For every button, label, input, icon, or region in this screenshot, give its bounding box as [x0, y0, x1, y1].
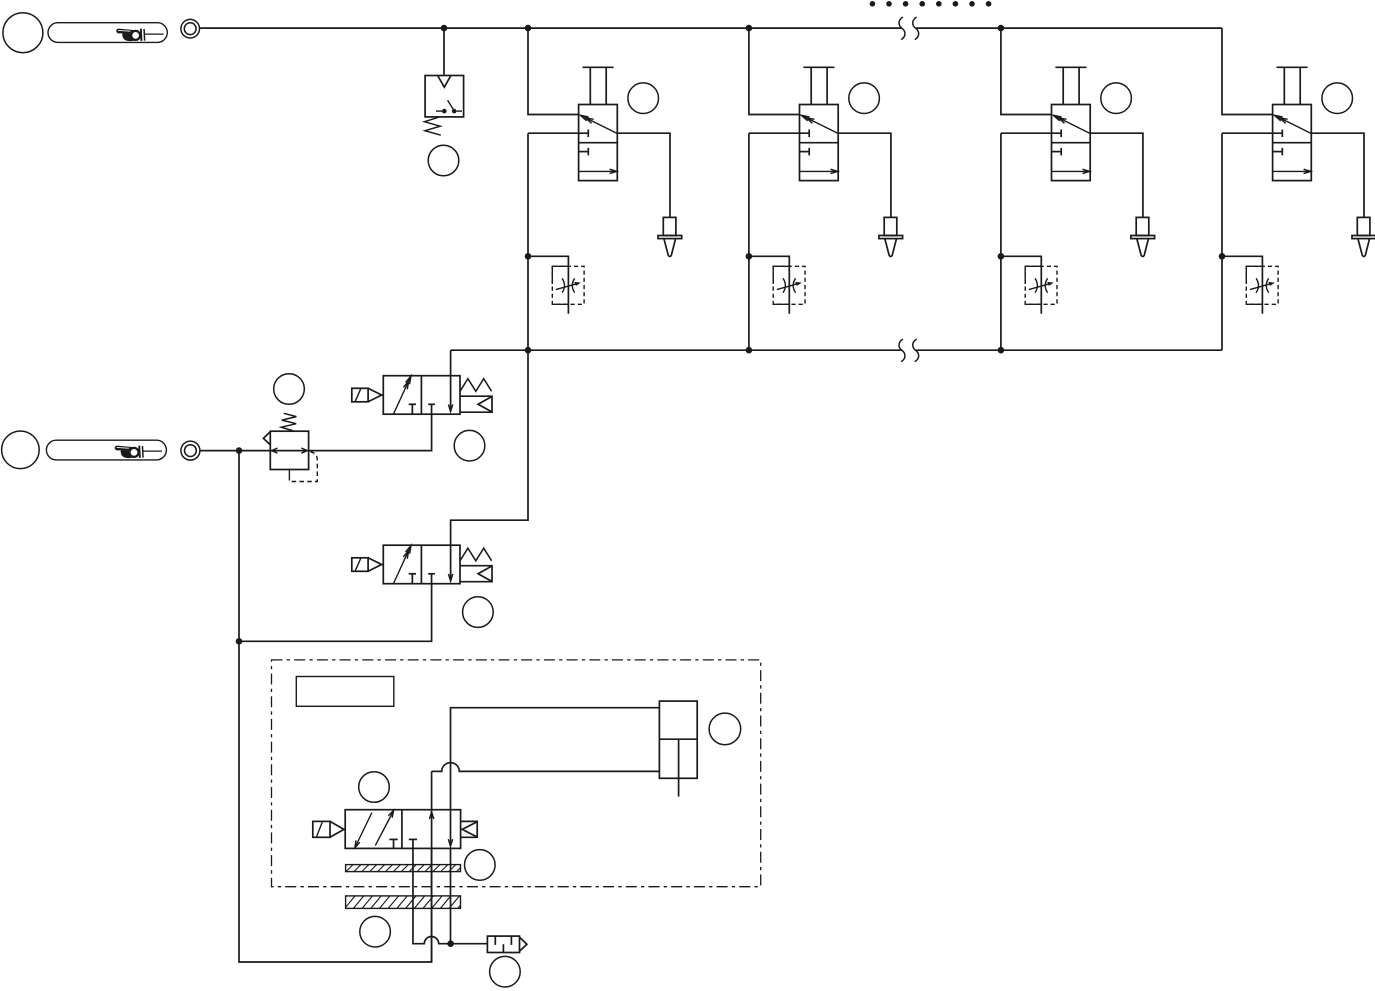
- balloon: valve V2: [463, 597, 494, 628]
- wire: lower vacuum bus (right part): [916, 349, 1222, 351]
- DV crossed flow arrows (left position): [356, 813, 372, 846]
- continuation dots (repeated units): [870, 1, 876, 7]
- DV straight flow arrows (right position): [429, 812, 433, 819]
- hand symbol 2: [115, 446, 144, 459]
- solenoid valve V1 (3-port, spring return): [352, 376, 492, 415]
- pressure switch PS (box with electrical contact): [425, 76, 464, 117]
- regulator R (pressure reducing valve): [270, 431, 308, 469]
- pressure switch spring: [425, 117, 441, 135]
- enclosure: actuator assembly (chain line box): [272, 660, 761, 887]
- balloon: silencer: [490, 956, 521, 987]
- wire: DV exhaust port (right) down: [450, 848, 452, 943]
- junction: supply 2 branch: [236, 447, 243, 454]
- break marks: top bus continuation: [899, 17, 905, 40]
- hand symbol 1: [116, 29, 145, 42]
- break marks: lower bus continuation: [899, 339, 905, 362]
- wire: DV exhaust port (left) down and across (hop over supply): [413, 848, 451, 943]
- DV air pilot (right end): [461, 821, 477, 837]
- junction: pressure-switch tap: [441, 25, 448, 32]
- wire: junction to silencer: [451, 943, 488, 945]
- balloon: DV: [465, 850, 496, 881]
- junction: unit 2 bottom tap: [746, 347, 753, 354]
- cylinder C (with rod down): [659, 701, 697, 778]
- ejector unit 3 (supply valve + nozzle + flow control): [998, 28, 1155, 350]
- label tag: hand-operated supply 1: [48, 23, 167, 43]
- port: air supply inlet 1: [181, 19, 200, 38]
- junction: unit 1 bottom tap: [525, 347, 532, 354]
- wire: branch down to 5/2 valve supply: [239, 641, 432, 962]
- wire: V2 top port to vacuum bus: [451, 350, 528, 545]
- DV blocked port T (left cell): [389, 838, 397, 840]
- regulator adjusting spring: [281, 413, 296, 431]
- balloon: air supply 1: [3, 13, 43, 53]
- balloon: valve V1: [454, 430, 485, 461]
- junction: unit 2 top tap: [746, 25, 753, 32]
- wire: top supply bus (right part): [916, 27, 1222, 29]
- wire: branch down to pilot-valve supply: [238, 451, 240, 642]
- balloon: cylinder: [709, 713, 741, 745]
- regulator relief triangle: [263, 432, 270, 445]
- junction: unit 1 top tap: [525, 25, 532, 32]
- junction: exhaust lines meet: [447, 940, 454, 947]
- wire: supply 2 to regulator: [200, 450, 270, 452]
- DV blocked port T (right cell): [409, 838, 417, 840]
- regulator pilot feedback (dashed): [288, 470, 290, 476]
- wire: cylinder rod-side to 5/2 valve port B (hop over): [432, 763, 660, 772]
- balloon: mounting plate: [360, 916, 391, 947]
- label tag: hand-operated supply 2: [46, 440, 166, 460]
- ejector unit 4 (supply valve + nozzle + flow control): [1219, 28, 1375, 350]
- name plate rectangle: [296, 677, 394, 707]
- wire: cylinder head-side to 5/2 valve port A: [451, 708, 660, 810]
- junction: lower branch: [236, 638, 243, 645]
- port: air supply inlet 2: [181, 441, 200, 460]
- solenoid valve V2 (3-port, spring return): [352, 545, 492, 584]
- balloon: pressure switch: [428, 145, 459, 176]
- junction: unit 3 bottom tap: [998, 347, 1005, 354]
- wire: lower vacuum bus (left part): [528, 349, 901, 351]
- silencer / slow-exhaust valve: [487, 936, 519, 952]
- directional valve DV (4/5-port solenoid valve): [345, 810, 460, 849]
- wire: V2 bottom port to supply branch: [239, 584, 432, 642]
- wire: V1 exhaust-arrow feed from vacuum bus: [450, 350, 452, 411]
- wire: drop to pressure switch: [443, 28, 445, 75]
- junction: unit 3 top tap: [998, 25, 1005, 32]
- balloon: DV solenoid: [359, 772, 390, 803]
- ejector unit 2 (supply valve + nozzle + flow control): [746, 28, 903, 350]
- ejector unit 1 (supply valve + nozzle + flow control): [525, 28, 682, 350]
- DV solenoid actuator: [313, 821, 330, 837]
- wire: regulator outlet to valve V1: [309, 414, 432, 450]
- wire: top supply bus (left part): [200, 27, 902, 29]
- balloon: regulator: [274, 374, 305, 405]
- balloon: air supply 2: [2, 431, 40, 469]
